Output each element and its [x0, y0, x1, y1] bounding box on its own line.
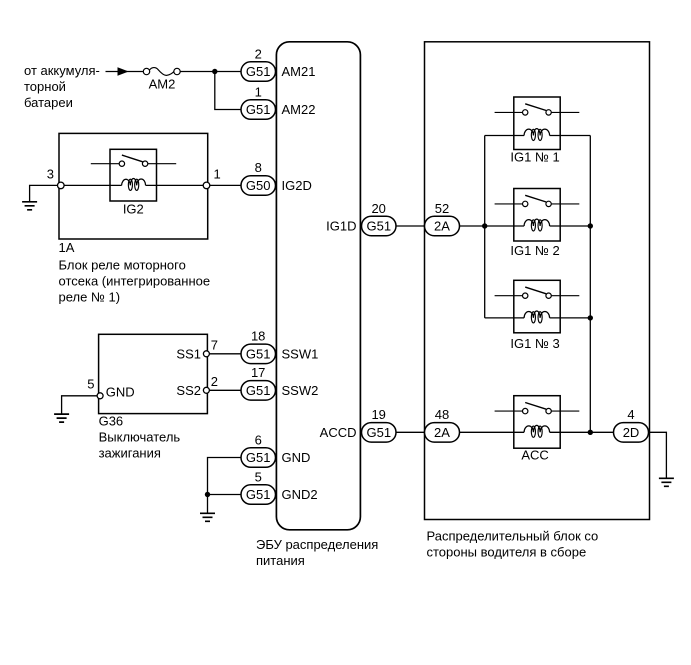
svg-text:AM2: AM2	[149, 76, 176, 91]
svg-text:G50: G50	[246, 178, 271, 193]
wire left bus to IG1#3 coil	[485, 317, 524, 319]
ECU (power distribution) box	[276, 42, 360, 530]
wire SS1 to SSW1	[209, 353, 241, 355]
svg-text:18: 18	[251, 329, 265, 344]
svg-text:от аккумуля-: от аккумуля-	[24, 63, 100, 78]
wire IG1#3 coil to right bus	[550, 317, 591, 319]
svg-text:48: 48	[435, 407, 449, 422]
svg-text:1: 1	[214, 167, 221, 182]
coil IG1#1	[524, 129, 550, 136]
svg-text:ЭБУ распределения: ЭБУ распределения	[256, 537, 378, 552]
coil IG1#2	[524, 219, 550, 226]
pin GND (5)	[87, 377, 134, 400]
svg-text:G51: G51	[367, 219, 392, 234]
wire 2A(48) through ACC coil to 2D	[460, 431, 614, 433]
driver side junction block box	[425, 42, 650, 520]
svg-text:ACC: ACC	[521, 447, 548, 462]
svg-text:IG2D: IG2D	[282, 178, 312, 193]
wire from battery text to fuse AM2	[106, 71, 144, 73]
connector 2D pin 4	[614, 407, 649, 442]
svg-text:GND: GND	[282, 450, 311, 465]
pin 1 terminal	[203, 167, 221, 189]
svg-text:G51: G51	[246, 102, 271, 117]
pin 3 terminal	[47, 167, 64, 189]
connector G51 pin 2, AM21	[241, 46, 315, 81]
wire 2D to ground	[649, 432, 667, 478]
connector G50 pin 8, IG2D	[241, 160, 312, 195]
svg-text:17: 17	[251, 365, 265, 380]
svg-text:G51: G51	[246, 64, 271, 79]
wire pin 3 to relay IG2	[64, 184, 122, 186]
wire pin 1 to G50	[210, 184, 241, 186]
connector G51 pin 18, SSW1	[241, 329, 318, 364]
svg-text:SS2: SS2	[176, 383, 201, 398]
relay IG1 No.1	[495, 97, 580, 165]
svg-text:G51: G51	[246, 346, 271, 361]
ground (relay block pin 3)	[22, 202, 37, 210]
svg-text:2A: 2A	[434, 219, 450, 234]
wire SS2 to SSW2	[209, 389, 241, 391]
svg-text:4: 4	[627, 407, 634, 422]
svg-text:SSW2: SSW2	[282, 383, 319, 398]
wire 2A(52) through relay IG1#2 coil to right bus	[460, 225, 591, 227]
svg-text:SSW1: SSW1	[282, 346, 319, 361]
svg-text:питания: питания	[256, 553, 305, 568]
wire relay IG2 to pin 1	[146, 184, 204, 186]
svg-text:2D: 2D	[623, 425, 640, 440]
pin SS2 (2)	[176, 374, 218, 398]
pin SS1 (7)	[176, 338, 218, 362]
fuse AM2	[143, 68, 180, 92]
svg-text:Выключатель: Выключатель	[99, 430, 181, 445]
svg-text:2: 2	[211, 374, 218, 389]
svg-text:8: 8	[255, 160, 262, 175]
svg-text:IG1 № 3: IG1 № 3	[510, 336, 559, 351]
right bus vertical	[589, 136, 591, 433]
svg-text:5: 5	[87, 377, 94, 392]
svg-text:SS1: SS1	[176, 346, 201, 361]
connector G51 pin 19, ACCD	[320, 407, 396, 442]
coil IG1#3	[524, 311, 550, 318]
wire left bus to IG1#1 coil	[485, 135, 524, 137]
svg-text:G36: G36	[99, 414, 124, 429]
svg-text:ACCD: ACCD	[320, 425, 357, 440]
svg-text:стороны водителя в сборе: стороны водителя в сборе	[427, 545, 587, 560]
svg-text:1: 1	[255, 84, 262, 99]
svg-text:зажигания: зажигания	[99, 446, 161, 461]
junction block caption	[427, 529, 599, 560]
svg-text:2A: 2A	[434, 425, 450, 440]
svg-text:G51: G51	[246, 487, 271, 502]
svg-text:7: 7	[211, 338, 218, 353]
svg-text:6: 6	[255, 432, 262, 447]
ground (ignition switch)	[54, 414, 69, 422]
relay IG1 No.3	[495, 280, 580, 351]
wire IG1D to 2A(52)	[396, 225, 425, 227]
svg-text:5: 5	[255, 469, 262, 484]
connector 2A pin 52	[425, 201, 460, 236]
connector 2A pin 48	[425, 407, 460, 442]
wire GND/GND2 to ground	[208, 458, 242, 513]
svg-text:GND2: GND2	[282, 487, 318, 502]
wire ground to pin 3	[30, 185, 58, 201]
relay ACC	[495, 396, 580, 463]
wire ACCD to 2A(48)	[396, 431, 425, 433]
wire fuse to node	[180, 71, 241, 73]
ground (ECU GND)	[200, 513, 215, 521]
ignition switch caption G36	[99, 414, 181, 461]
relay IG2	[91, 149, 176, 216]
svg-text:Распределительный блок со: Распределительный блок со	[427, 529, 599, 544]
svg-text:52: 52	[435, 201, 449, 216]
svg-text:IG1 № 1: IG1 № 1	[510, 150, 559, 165]
svg-text:3: 3	[47, 167, 54, 182]
connector G51 pin 1, AM22	[241, 84, 315, 119]
svg-text:G51: G51	[246, 450, 271, 465]
junction node	[212, 69, 217, 74]
engine room relay block box	[59, 133, 208, 239]
svg-text:2: 2	[255, 46, 262, 61]
svg-text:AM21: AM21	[282, 64, 316, 79]
svg-text:19: 19	[371, 407, 385, 422]
svg-text:Блок реле моторного: Блок реле моторного	[59, 258, 186, 273]
svg-text:IG2: IG2	[123, 202, 144, 217]
wire GND to ground	[62, 396, 98, 414]
engine room relay block caption 1A	[59, 240, 211, 305]
wire node down to AM22	[215, 72, 241, 110]
svg-text:реле № 1): реле № 1)	[59, 290, 121, 305]
coil ACC	[524, 425, 550, 432]
relay IG1 No.2	[495, 189, 580, 259]
svg-text:G51: G51	[367, 425, 392, 440]
svg-text:1А: 1А	[59, 240, 75, 255]
svg-text:GND: GND	[106, 385, 135, 400]
arrow	[118, 67, 129, 75]
ground (right)	[659, 478, 674, 486]
svg-text:торной: торной	[24, 79, 66, 94]
svg-text:IG1 № 2: IG1 № 2	[510, 243, 559, 258]
label: from battery	[24, 63, 100, 110]
left bus vertical	[484, 136, 486, 318]
svg-text:батареи: батареи	[24, 95, 73, 110]
junction node right bus at ACC	[588, 430, 593, 435]
wire IG1#1 coil to right bus	[550, 135, 591, 137]
svg-text:отсека (интегрированное: отсека (интегрированное	[59, 274, 211, 289]
junction node right bus at IG1#2	[588, 223, 593, 228]
connector G51 pin 17, SSW2	[241, 365, 318, 400]
svg-text:G51: G51	[246, 383, 271, 398]
ignition switch box	[99, 334, 208, 413]
junction node left bus	[482, 223, 487, 228]
svg-text:IG1D: IG1D	[326, 219, 356, 234]
svg-text:AM22: AM22	[282, 102, 316, 117]
connector G51 pin 20, IG1D	[326, 201, 396, 236]
junction node right bus at IG1#3	[588, 315, 593, 320]
junction node GND	[205, 492, 210, 497]
svg-text:20: 20	[371, 201, 385, 216]
connector G51 pin 5, GND2	[241, 469, 318, 504]
connector G51 pin 6, GND	[241, 432, 310, 467]
ECU caption	[256, 537, 378, 568]
